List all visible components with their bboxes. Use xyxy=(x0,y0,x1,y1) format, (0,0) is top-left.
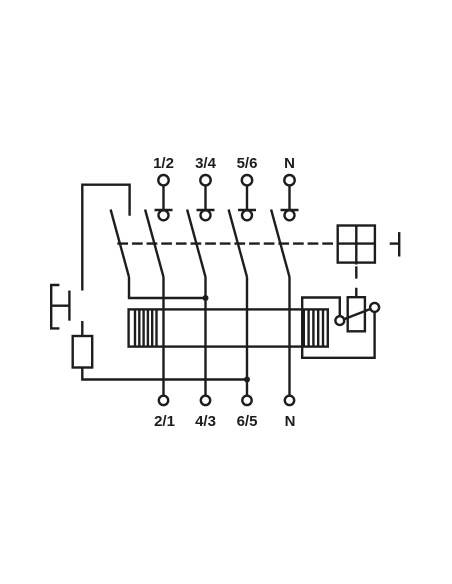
switch blade pole 2 xyxy=(187,210,205,278)
svg-text:3/4: 3/4 xyxy=(195,155,217,172)
terminal 6/5 (bottom) xyxy=(242,396,251,405)
primary winding (left hatched section) xyxy=(135,309,157,346)
relay contact blade xyxy=(344,309,370,319)
svg-text:2/1: 2/1 xyxy=(154,413,175,430)
test contact fixed feed (hook wire) xyxy=(82,185,129,291)
wire pole 3 conductor xyxy=(246,277,248,396)
wire test blade to node xyxy=(129,277,206,298)
wire pole 2 conductor xyxy=(204,277,206,396)
current transformer core xyxy=(129,309,328,346)
manual actuator bar xyxy=(398,232,400,256)
svg-text:N: N xyxy=(285,413,296,430)
dashed link mechanism to manual actuator xyxy=(390,242,399,244)
terminal 4/3 (bottom) xyxy=(201,396,210,405)
terminal 5/6 xyxy=(238,175,256,220)
junction node on pole 3/4 xyxy=(203,295,209,301)
trip relay coil xyxy=(348,297,365,331)
wire button to resistor xyxy=(81,321,83,336)
wire resistor to node on pole 5/6 xyxy=(82,368,247,380)
terminal 1/2 xyxy=(155,175,173,220)
svg-text:5/6: 5/6 xyxy=(237,155,258,172)
operating mechanism box xyxy=(338,226,375,265)
svg-text:1/2: 1/2 xyxy=(153,155,174,172)
wire pole 1 conductor xyxy=(162,277,164,396)
secondary winding (right hatched section) xyxy=(304,309,323,346)
svg-text:6/5: 6/5 xyxy=(237,413,258,430)
switch blade pole 3 xyxy=(229,210,247,278)
switch blade pole 1 xyxy=(145,210,163,278)
svg-text:N: N xyxy=(284,155,295,172)
secondary circuit wire loop xyxy=(302,298,374,358)
dashed link mechanism to trip relay xyxy=(355,266,357,296)
test button moving bar xyxy=(68,291,70,321)
relay contact pivot (left circle) xyxy=(335,316,344,325)
test resistor xyxy=(73,336,93,368)
terminal 3/4 xyxy=(197,175,215,220)
wire pole N conductor xyxy=(288,277,290,396)
terminal 2/1 (bottom) xyxy=(159,396,168,405)
terminal N (bottom) xyxy=(285,396,294,405)
switch blade pole N xyxy=(271,210,289,278)
relay contact terminal (right circle) xyxy=(370,303,379,312)
test button actuator bracket xyxy=(51,285,68,328)
terminal N top xyxy=(281,175,299,220)
mechanical linkage (dashed) xyxy=(117,242,333,244)
svg-text:4/3: 4/3 xyxy=(195,413,216,430)
junction node on pole 5/6 xyxy=(244,377,250,383)
test switch blade S0 xyxy=(111,210,129,278)
